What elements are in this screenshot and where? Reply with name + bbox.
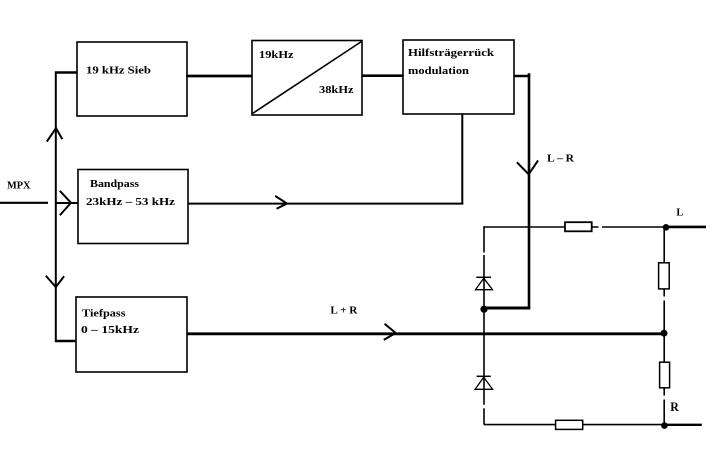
- wire L-R vertical: [528, 73, 531, 308]
- svg-text:23kHz – 53 kHz: 23kHz – 53 kHz: [86, 196, 175, 208]
- wire modulator bottom output: [461, 114, 463, 204]
- wire R output stub: [664, 424, 702, 426]
- svg-text:L + R: L + R: [330, 304, 358, 316]
- arrow on L+R rail: [385, 324, 396, 339]
- block Bandpass: [78, 170, 188, 244]
- wire left demod vertical: [483, 226, 485, 252]
- svg-text:R: R: [670, 400, 680, 414]
- arrow down on L-R wire: [518, 161, 538, 174]
- wire L-R horizontal to diode node: [484, 307, 530, 310]
- junction dot L-R node: [480, 306, 487, 313]
- arrow down on trunk: [47, 277, 64, 288]
- wire Bandpass output: [188, 203, 463, 205]
- wire bottom rail: [484, 424, 664, 426]
- svg-text:L: L: [676, 206, 683, 218]
- diode D1: [475, 277, 492, 289]
- wire into Bandpass: [56, 202, 78, 204]
- wire L+R rail: [187, 332, 664, 335]
- junction dot L output: [663, 224, 670, 231]
- svg-text:19kHz: 19kHz: [259, 49, 294, 61]
- junction dot R output: [661, 422, 668, 429]
- arrow on Bandpass output: [276, 197, 287, 209]
- block frequency doubler: [252, 41, 362, 116]
- wire L output stub: [666, 226, 706, 229]
- diode D2: [475, 376, 493, 389]
- wire Sieb to doubler: [186, 75, 252, 78]
- junction dot L+R right rail: [661, 330, 668, 337]
- resistor bottom rail: [556, 420, 583, 429]
- wire trunk to Tiefpass box: [55, 340, 77, 342]
- svg-text:MPX: MPX: [7, 181, 31, 192]
- wire modulator output to corner: [514, 75, 531, 78]
- arrow up on trunk: [47, 128, 61, 141]
- wire right rail: [663, 227, 665, 297]
- svg-text:Bandpass: Bandpass: [90, 178, 140, 190]
- block Hilfstraegerrueck modulation: [403, 40, 514, 114]
- resistor right upper: [659, 263, 670, 289]
- svg-text:L – R: L – R: [547, 153, 575, 165]
- svg-text:Tiefpass: Tiefpass: [82, 308, 126, 320]
- svg-text:0 – 15kHz: 0 – 15kHz: [81, 324, 139, 336]
- block Tiefpass: [76, 297, 187, 372]
- block 19 kHz Sieb: [77, 42, 187, 116]
- wire trunk vertical: [55, 72, 57, 343]
- wire doubler to modulator: [362, 74, 403, 77]
- wire MPX input: [0, 202, 48, 204]
- arrow into Bandpass: [61, 192, 72, 215]
- svg-text:Hilfsträgerrück: Hilfsträgerrück: [408, 47, 495, 59]
- resistor top rail: [565, 222, 592, 231]
- wire trunk to Sieb box: [55, 71, 78, 74]
- resistor right lower: [660, 362, 670, 388]
- svg-text:38kHz: 38kHz: [319, 84, 354, 96]
- svg-text:19 kHz Sieb: 19 kHz Sieb: [86, 65, 151, 77]
- wire top rail: [484, 226, 599, 228]
- svg-text:modulation: modulation: [408, 65, 469, 77]
